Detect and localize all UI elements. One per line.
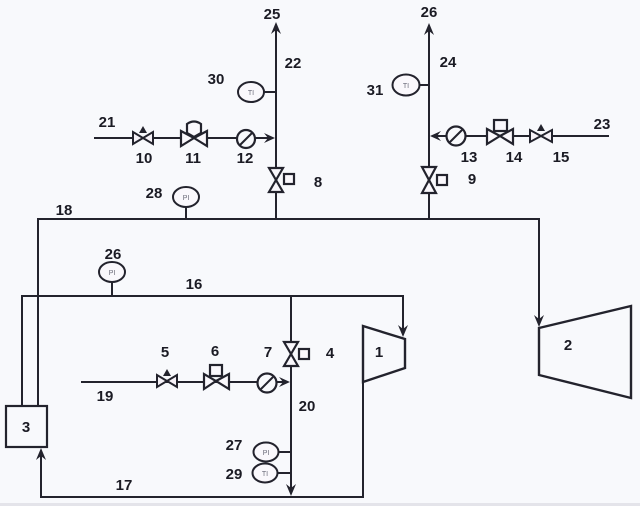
wire line 19 horizontal (82, 381, 284, 383)
instrument 29 (253, 464, 278, 483)
box 3 (6, 406, 47, 447)
arrow line 20 bottom (286, 484, 296, 496)
arrow into box 3 bottom (36, 448, 46, 460)
svg-text:10: 10 (136, 150, 153, 167)
svg-text:12: 12 (237, 150, 254, 167)
arrow line 21 into line 22 (264, 133, 275, 143)
valve 10 top marker (139, 126, 147, 133)
svg-text:25: 25 (264, 6, 281, 23)
wire line 20 vertical (290, 296, 292, 492)
svg-text:6: 6 (211, 343, 219, 360)
svg-text:3: 3 (22, 419, 30, 436)
instrument 27 (254, 443, 279, 462)
svg-text:18: 18 (56, 202, 73, 219)
arrow into turbine 2 (534, 315, 544, 327)
svg-text:21: 21 (99, 114, 116, 131)
arrow line 24 top (424, 23, 434, 35)
wire line 21 horizontal (95, 137, 270, 139)
valve 10 gate valve (133, 132, 153, 144)
svg-text:31: 31 (367, 82, 384, 99)
svg-text:19: 19 (97, 388, 114, 405)
control valve 6 (204, 365, 229, 389)
svg-text:22: 22 (285, 55, 302, 72)
valve 5 top marker (163, 369, 171, 376)
pump 12 circle (237, 130, 255, 148)
pump 13 circle (447, 127, 466, 146)
wire line 24 vertical (428, 30, 430, 219)
valve 15 gate valve (530, 130, 552, 142)
wire left vertical from line 18 to box 3 (37, 219, 39, 406)
pump 7 circle (258, 374, 277, 393)
svg-text:TI: TI (262, 471, 268, 478)
svg-text:5: 5 (161, 344, 169, 361)
wire line 16 horizontal (22, 296, 403, 406)
svg-text:29: 29 (226, 466, 243, 483)
svg-text:16: 16 (186, 276, 203, 293)
arrow into compressor 1 (398, 325, 408, 337)
svg-text:PI: PI (183, 195, 190, 202)
svg-text:26: 26 (105, 246, 122, 263)
svg-text:28: 28 (146, 185, 163, 202)
svg-text:17: 17 (116, 477, 133, 494)
svg-text:TI: TI (403, 83, 409, 90)
svg-text:15: 15 (553, 149, 570, 166)
svg-text:20: 20 (299, 398, 316, 415)
svg-text:13: 13 (461, 149, 478, 166)
instrument 30 (238, 82, 264, 102)
svg-text:PI: PI (109, 270, 116, 277)
svg-text:11: 11 (185, 150, 201, 167)
svg-text:14: 14 (506, 149, 523, 166)
wire line 23 horizontal (437, 135, 608, 137)
wire line 18 horizontal (38, 218, 539, 220)
arrow line 19 into line 20 (279, 377, 290, 387)
control valve 14 (487, 120, 513, 144)
valve 9 on line 24 (422, 167, 447, 193)
wire line 17 with risers (41, 382, 363, 497)
valve 8 on line 22 (269, 168, 294, 192)
svg-text:1: 1 (375, 344, 383, 361)
instrument 31 (393, 75, 420, 96)
arrow line 22 top (271, 22, 281, 34)
instrument 28 (173, 187, 199, 207)
arrow line 23 into line 24 (430, 131, 441, 141)
svg-text:7: 7 (264, 344, 272, 361)
turbine 2 trapezoid (539, 306, 631, 398)
valve 15 top marker (537, 124, 545, 131)
valve 4 on line 20 (284, 342, 309, 366)
wire drop to turbine 2 (538, 219, 540, 320)
valve 5 gate valve (157, 375, 177, 387)
svg-text:26: 26 (421, 4, 438, 21)
svg-text:4: 4 (326, 345, 335, 362)
svg-text:24: 24 (440, 54, 457, 71)
svg-text:9: 9 (468, 171, 476, 188)
instrument 26 (99, 262, 125, 282)
svg-text:23: 23 (594, 116, 611, 133)
svg-text:30: 30 (208, 71, 225, 88)
control valve 11 (181, 122, 207, 147)
svg-text:TI: TI (248, 90, 254, 97)
wire drop to compressor 1 (402, 296, 404, 329)
svg-text:8: 8 (314, 174, 322, 191)
wire line 22 vertical (275, 29, 277, 219)
svg-text:PI: PI (263, 450, 270, 457)
svg-text:2: 2 (564, 337, 572, 354)
compressor 1 trapezoid (363, 326, 405, 382)
svg-text:27: 27 (226, 437, 243, 454)
